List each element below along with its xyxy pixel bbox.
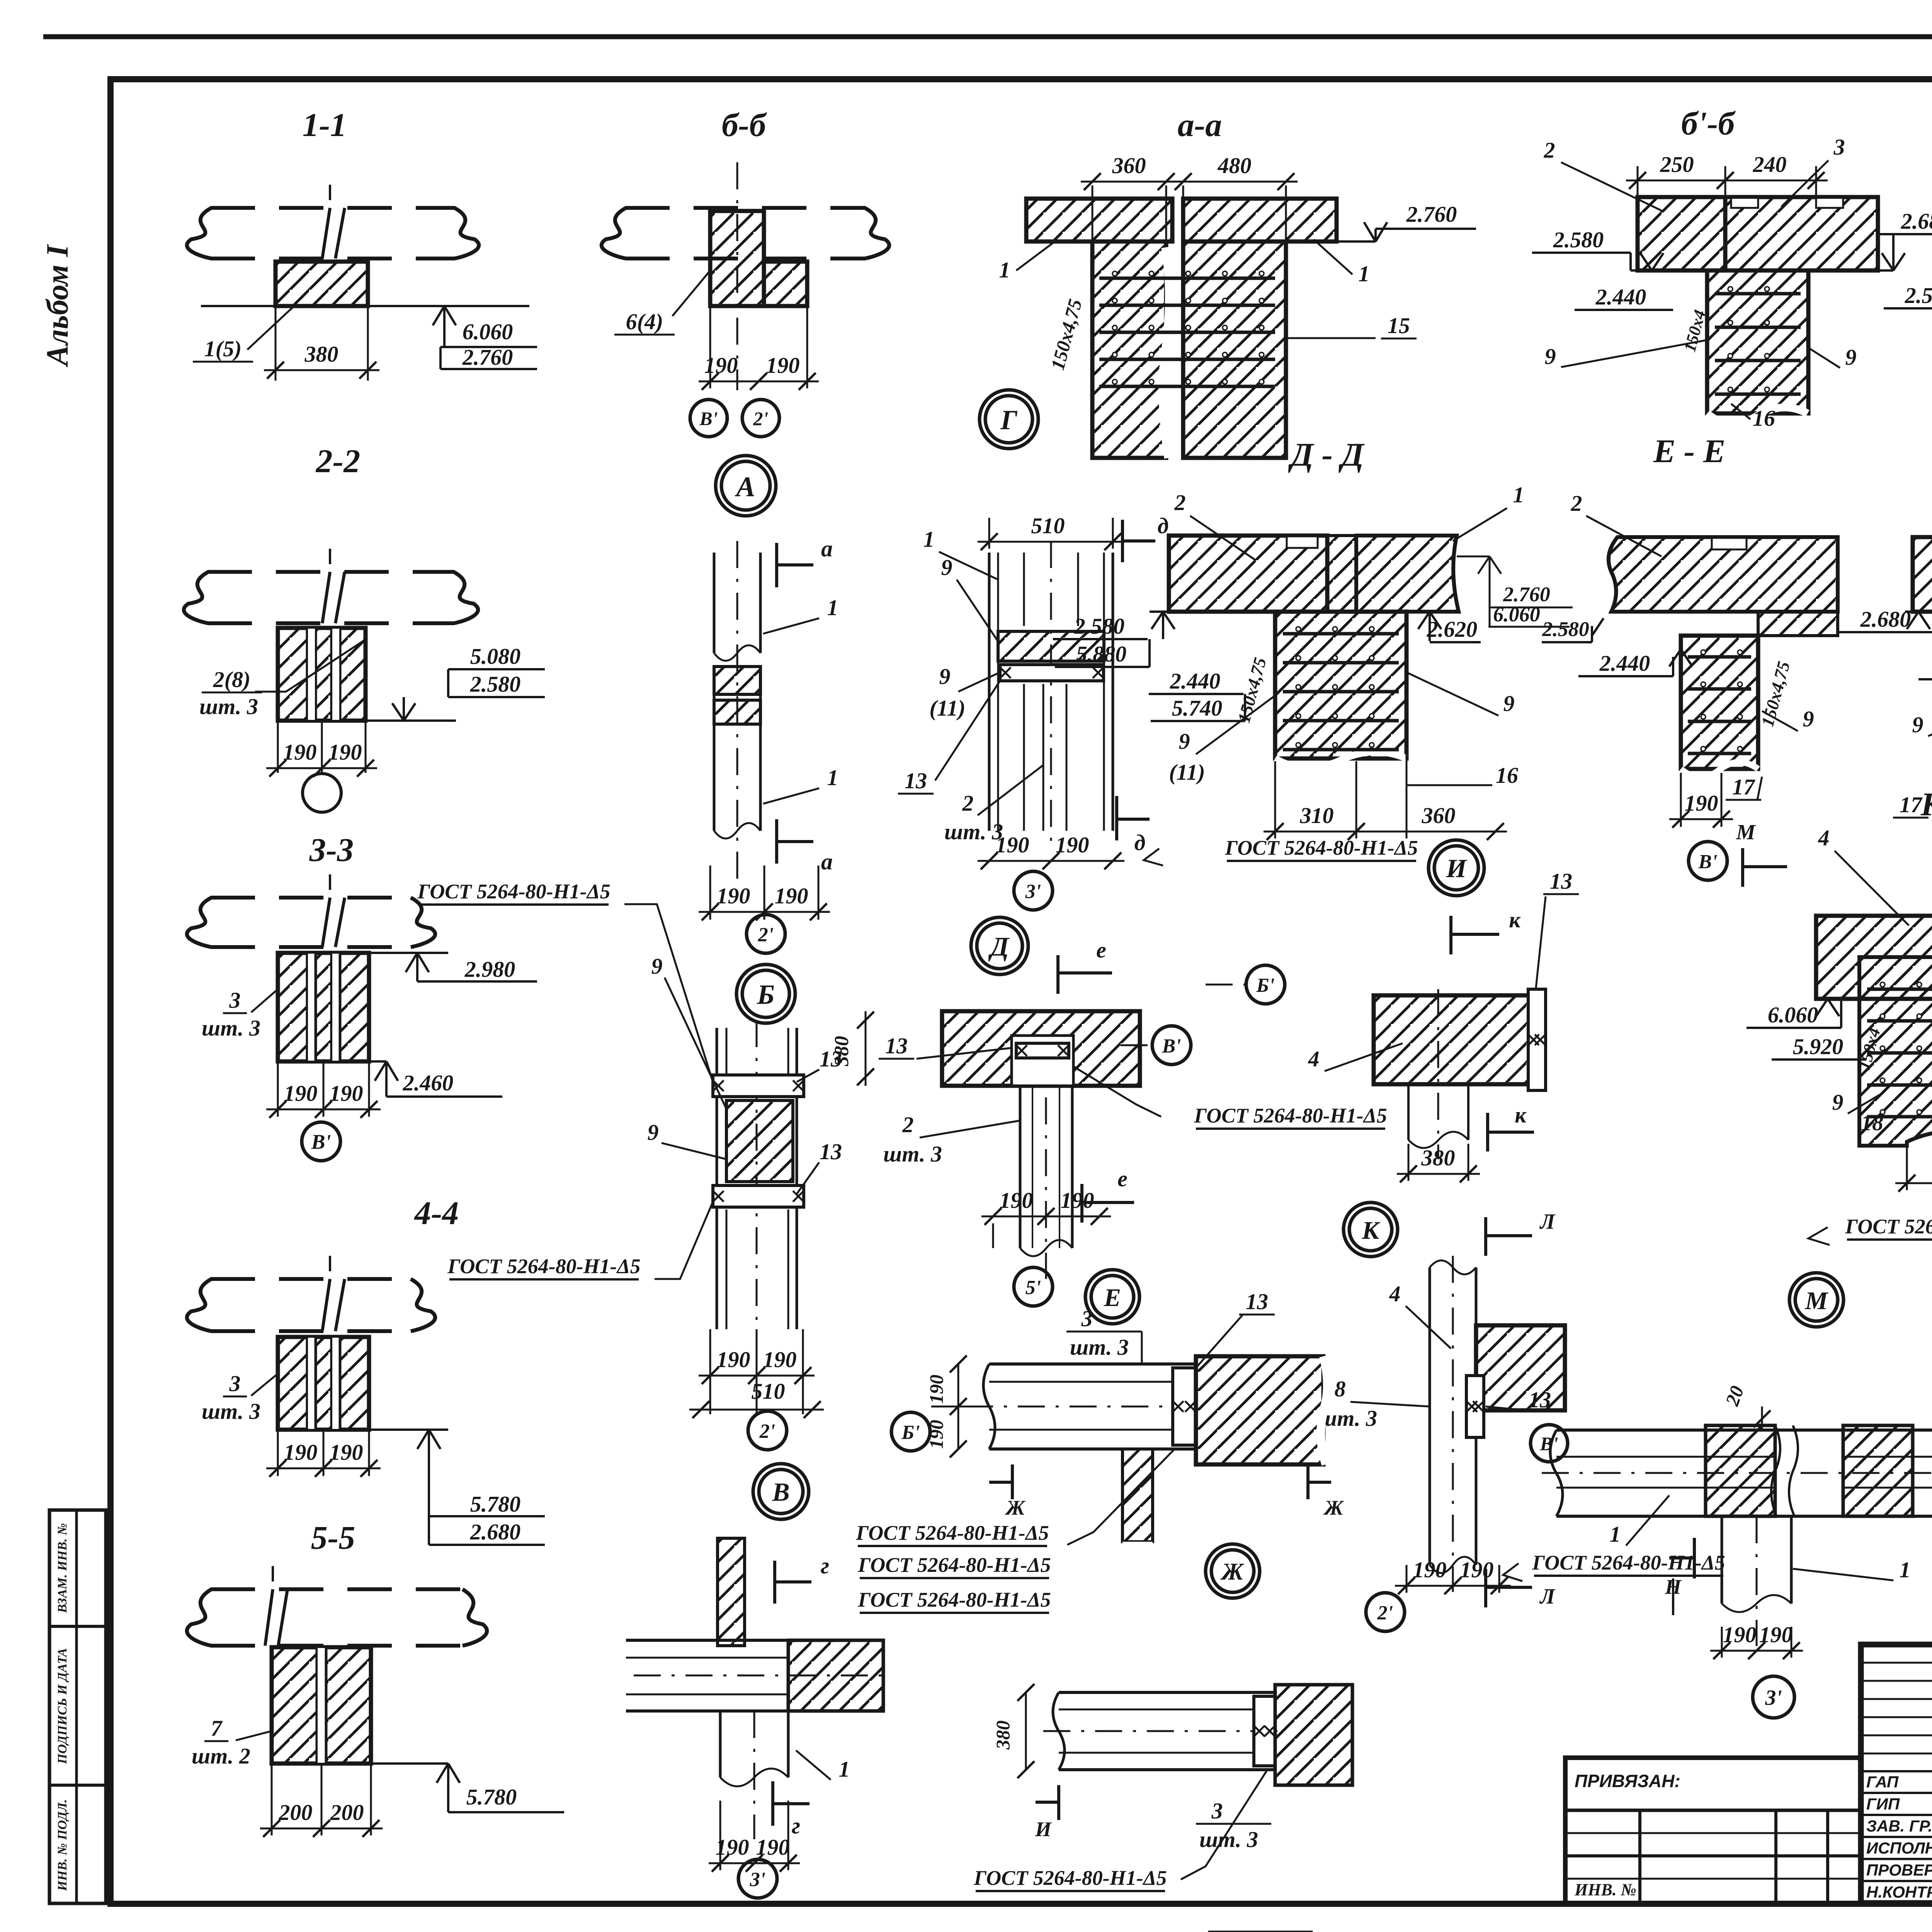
node E circle: [1085, 1270, 1139, 1324]
svg-text:1: 1: [1513, 482, 1524, 507]
svg-text:Л: Л: [1539, 1210, 1556, 1234]
section 3-3 level 2.460: [369, 1060, 386, 1063]
M-node beam top flange: [1556, 1429, 1932, 1432]
node A column elevation: [713, 553, 716, 653]
section 6-6 dims 190 190: [709, 306, 711, 388]
node I column stub: [1407, 1084, 1410, 1140]
node B plate joint 1: [713, 1075, 804, 1097]
svg-text:15: 15: [1388, 313, 1410, 338]
svg-text:190: 190: [996, 832, 1029, 857]
svg-text:2': 2': [759, 1420, 775, 1442]
svg-text:(11): (11): [929, 696, 965, 721]
svg-text:16: 16: [1753, 406, 1775, 431]
svg-text:Е: Е: [1104, 1284, 1121, 1312]
section 2-2 beam: [207, 570, 454, 574]
node Zh vdim 380: [1025, 1692, 1027, 1770]
svg-text:5': 5': [1026, 1277, 1041, 1299]
svg-text:ИНВ. № ПОДЛ.: ИНВ. № ПОДЛ.: [55, 1799, 70, 1891]
section D-D middle column strip: [1327, 536, 1356, 612]
node G dim 510: [988, 518, 990, 549]
svg-text:ВЗАМ. ИНВ. №: ВЗАМ. ИНВ. №: [55, 1523, 70, 1613]
svg-text:2(8): 2(8): [213, 667, 251, 692]
svg-text:16: 16: [1496, 763, 1518, 788]
svg-text:М: М: [1736, 820, 1756, 844]
svg-text:190: 190: [1685, 791, 1718, 816]
axis circle V' below E-E: [1689, 842, 1727, 880]
node G circle: [980, 390, 1038, 449]
section 2-2 pier: [278, 628, 366, 721]
axis circle 3' node G: [1014, 871, 1053, 910]
svg-text:3: 3: [229, 988, 241, 1013]
svg-text:3: 3: [1211, 1798, 1223, 1823]
M-node hatched web pieces: [1706, 1425, 1775, 1516]
axis circle 5': [1014, 1267, 1053, 1306]
svg-text:Н.КОНТР.: Н.КОНТР.: [1866, 1883, 1932, 1901]
svg-text:ГОСТ 5264-80-Н1-Δ5: ГОСТ 5264-80-Н1-Δ5: [1532, 1551, 1725, 1574]
svg-text:9: 9: [1912, 712, 1923, 737]
section K-K slab: [1816, 916, 1932, 999]
svg-text:ГИП: ГИП: [1866, 1795, 1900, 1813]
svg-text:ГОСТ 5264-80-Н1-Δ5: ГОСТ 5264-80-Н1-Δ5: [417, 880, 610, 903]
section a-a left column: [1092, 241, 1166, 458]
node A section marks a: [775, 543, 778, 587]
svg-text:В': В': [1162, 1035, 1181, 1057]
svg-text:И: И: [1035, 1818, 1052, 1841]
section D-D column with studs: [1275, 612, 1406, 759]
svg-text:2.440: 2.440: [1595, 284, 1646, 310]
section a-a stud rows: [1099, 277, 1275, 280]
svg-text:ГАП: ГАП: [1866, 1773, 1899, 1791]
svg-text:190: 190: [328, 740, 362, 765]
node E plate: [1173, 1368, 1196, 1445]
node D dims 190 190: [992, 1223, 994, 1248]
svg-text:380: 380: [992, 1721, 1014, 1750]
svg-text:Г: Г: [1000, 405, 1017, 435]
section 1-1 dim 380: [275, 306, 277, 381]
svg-text:2: 2: [1174, 490, 1186, 515]
svg-text:5.740: 5.740: [1172, 696, 1223, 721]
node D slab: [942, 1011, 1140, 1086]
svg-text:380: 380: [831, 1036, 853, 1066]
svg-text:190: 190: [1056, 832, 1089, 857]
svg-text:3': 3': [1765, 1686, 1782, 1710]
svg-text:1: 1: [1359, 261, 1370, 286]
svg-text:шт. 2: шт. 2: [192, 1743, 250, 1769]
svg-text:2.760: 2.760: [1406, 202, 1457, 227]
node V circle: [753, 1464, 809, 1519]
axis circle B' right of D-D: [1246, 965, 1285, 1004]
svg-text:К - К: К - К: [1920, 786, 1932, 823]
svg-text:Д: Д: [988, 932, 1010, 962]
svg-text:д: д: [1134, 830, 1146, 855]
svg-text:480: 480: [1218, 153, 1252, 178]
svg-text:2.540: 2.540: [1905, 283, 1932, 308]
svg-text:190: 190: [1460, 1557, 1494, 1582]
M-node column stem: [1721, 1516, 1723, 1604]
svg-text:190: 190: [775, 883, 808, 908]
svg-text:шт. 3: шт. 3: [202, 1399, 260, 1424]
node B hatched block: [726, 1100, 793, 1182]
svg-text:4-4: 4-4: [414, 1194, 459, 1231]
svg-text:190: 190: [284, 1440, 318, 1465]
svg-text:190: 190: [717, 1347, 750, 1372]
svg-text:3: 3: [1833, 134, 1845, 160]
svg-text:1: 1: [1900, 1557, 1911, 1582]
svg-text:2.440: 2.440: [1170, 668, 1221, 694]
svg-text:510: 510: [1031, 513, 1065, 538]
section a-a level 2.760: [1337, 240, 1376, 243]
svg-text:г: г: [792, 1813, 800, 1838]
svg-text:200: 200: [330, 1800, 364, 1825]
node I circle: [1429, 840, 1484, 896]
svg-text:б-б: б-б: [722, 106, 767, 143]
node E beam side view: [989, 1362, 1198, 1366]
privyazan box: [1565, 1758, 1861, 1903]
node B circle: [736, 964, 795, 1023]
svg-text:2.680: 2.680: [1860, 607, 1911, 632]
svg-text:190: 190: [925, 1375, 947, 1404]
node K slab right: [1476, 1325, 1565, 1410]
svg-text:шт. 3: шт. 3: [1070, 1335, 1129, 1360]
svg-text:Альбом I: Альбом I: [41, 244, 75, 368]
svg-text:а: а: [821, 536, 833, 561]
section 3-3 beam: [211, 896, 412, 900]
node I plate right: [1528, 989, 1546, 1090]
svg-text:17: 17: [1732, 774, 1755, 799]
svg-text:6.060: 6.060: [1768, 1002, 1818, 1027]
section 1-1 beam: [211, 206, 455, 210]
M-node mark N left: [1693, 1538, 1696, 1578]
svg-text:3: 3: [1081, 1306, 1093, 1331]
svg-text:В': В': [311, 1130, 331, 1153]
svg-text:1: 1: [999, 257, 1010, 282]
section a-a right slab: [1183, 199, 1337, 241]
svg-text:ИНВ. №: ИНВ. №: [1574, 1880, 1636, 1899]
svg-text:а: а: [821, 849, 833, 874]
svg-text:380: 380: [304, 342, 338, 367]
M-node joint gap: [1771, 1425, 1780, 1516]
svg-text:310: 310: [1300, 803, 1334, 828]
section 6-6 column centerline: [736, 162, 738, 390]
svg-text:9: 9: [1503, 691, 1515, 716]
svg-text:2: 2: [1544, 138, 1555, 163]
node G column elevation: [988, 553, 991, 831]
section b'-b dim 250: [1637, 166, 1639, 195]
svg-text:2.980: 2.980: [464, 957, 515, 982]
svg-text:Д - Д: Д - Д: [1288, 436, 1365, 473]
svg-text:6(4): 6(4): [626, 309, 663, 334]
svg-text:2': 2': [758, 924, 774, 946]
section Zh-Zh slab: [1913, 537, 1932, 612]
node V beam side view: [626, 1639, 883, 1642]
svg-text:3': 3': [1025, 881, 1041, 903]
svg-text:2': 2': [1377, 1602, 1393, 1624]
svg-text:18: 18: [1861, 1110, 1883, 1135]
page top border line: [43, 34, 1932, 39]
section 5-5 pier: [272, 1647, 371, 1764]
section b'-b studs: [1715, 292, 1801, 296]
svg-text:ГОСТ 5264-80-Н1-Δ5: ГОСТ 5264-80-Н1-Δ5: [855, 1521, 1049, 1544]
svg-text:1: 1: [839, 1757, 850, 1782]
svg-text:4: 4: [1308, 1046, 1320, 1071]
svg-text:1-1: 1-1: [303, 106, 347, 143]
node K mark L bottom: [1484, 1569, 1487, 1607]
svg-text:9: 9: [939, 664, 951, 689]
svg-text:б'-б: б'-б: [1681, 105, 1736, 142]
node E slab right: [1196, 1356, 1323, 1464]
svg-text:3': 3': [750, 1869, 765, 1891]
svg-text:240: 240: [1753, 152, 1787, 177]
section 6-6 corbel: [764, 262, 807, 306]
svg-text:5.920: 5.920: [1793, 1034, 1844, 1059]
svg-text:190: 190: [1723, 1622, 1757, 1647]
svg-text:ЗАВ. ГР.: ЗАВ. ГР.: [1866, 1817, 1932, 1835]
svg-text:5.780: 5.780: [470, 1492, 521, 1517]
node D plate pocket: [1012, 1036, 1073, 1086]
section 1-1 bearing pad: [276, 262, 368, 306]
svg-text:250: 250: [1660, 152, 1694, 177]
node B plate joint 2: [713, 1185, 804, 1207]
section D-D dims 310 360: [1274, 761, 1276, 838]
node Zh circle: [1206, 1544, 1260, 1598]
section 3-3 level 2.980: [369, 952, 448, 954]
svg-text:шт. 3: шт. 3: [883, 1141, 942, 1167]
node G section marks d: [1121, 520, 1124, 562]
svg-text:шт. 3: шт. 3: [944, 819, 1003, 844]
svg-text:ГОСТ 5264-80-Н1-Δ5: ГОСТ 5264-80-Н1-Δ5: [857, 1553, 1051, 1577]
svg-text:6.060: 6.060: [1493, 603, 1540, 626]
svg-text:7: 7: [211, 1716, 223, 1741]
node E post below: [1122, 1449, 1153, 1542]
section D-D right slab: [1356, 536, 1459, 612]
svg-text:2.460: 2.460: [403, 1070, 454, 1095]
svg-text:4: 4: [1389, 1281, 1401, 1306]
svg-text:190: 190: [284, 1081, 318, 1106]
svg-text:к: к: [1515, 1102, 1527, 1128]
svg-text:ИСПОЛН.: ИСПОЛН.: [1866, 1839, 1932, 1857]
section 2-2 dims 190 190: [277, 721, 279, 773]
svg-text:2.760: 2.760: [462, 345, 513, 370]
svg-text:13: 13: [820, 1139, 842, 1164]
axis circle V' M-node: [1531, 1425, 1568, 1462]
svg-text:190: 190: [763, 1347, 797, 1372]
section 6-6 beam: [625, 206, 866, 210]
section 3-3 dims 190 190: [277, 1061, 279, 1117]
svg-text:1: 1: [923, 527, 935, 552]
node A circle: [716, 456, 776, 516]
svg-text:ГОСТ 5264-80-Н1-Δ5: ГОСТ 5264-80-Н1-Δ5: [1845, 1215, 1932, 1238]
svg-text:М: М: [1805, 1287, 1829, 1315]
node D column below: [1019, 1086, 1022, 1248]
svg-text:(11): (11): [1169, 760, 1205, 785]
node I dim 380: [1408, 1144, 1410, 1181]
section 4-4 levels: [369, 1429, 448, 1431]
section 4-4 beam: [211, 1277, 412, 1281]
section b'-b right slab: [1725, 197, 1878, 270]
section 4-4 pier: [278, 1337, 369, 1430]
node Zh plate: [1254, 1696, 1275, 1766]
node Zh beam side view: [1059, 1691, 1275, 1694]
svg-text:2.680: 2.680: [1901, 209, 1932, 234]
svg-text:Б: Б: [757, 979, 775, 1010]
svg-text:360: 360: [1112, 153, 1146, 178]
svg-text:190: 190: [283, 740, 317, 765]
section a-a dim 360: [1092, 185, 1094, 240]
svg-text:И: И: [1446, 854, 1468, 883]
svg-text:2.580: 2.580: [1553, 227, 1604, 252]
svg-text:2: 2: [902, 1112, 914, 1137]
svg-text:190: 190: [766, 353, 800, 378]
node D circle: [971, 917, 1028, 975]
section 5-5 dims 200 200: [271, 1764, 273, 1835]
node V column stem: [719, 1711, 722, 1777]
node E vdims 190 190: [957, 1364, 959, 1449]
node E marks Zh: [1011, 1464, 1014, 1499]
section 5-5 level 5.780: [371, 1762, 448, 1765]
section K-K mark M top: [1741, 848, 1744, 887]
svg-text:2.580: 2.580: [1542, 617, 1589, 641]
axis circle 2' below node B: [748, 1411, 787, 1450]
svg-text:5.080: 5.080: [470, 644, 521, 669]
section a-a left slab: [1026, 199, 1172, 241]
svg-text:5-5: 5-5: [311, 1519, 355, 1556]
svg-text:2.620: 2.620: [1427, 617, 1478, 642]
node K column: [1429, 1267, 1431, 1565]
svg-text:ПРОВЕР.: ПРОВЕР.: [1866, 1861, 1932, 1879]
svg-text:5.780: 5.780: [466, 1784, 517, 1810]
axis circles B' 2': [690, 400, 727, 437]
svg-text:13: 13: [1529, 1387, 1551, 1412]
node B dims 190 190 510: [709, 1329, 711, 1414]
svg-text:ГОСТ 5264-80-Н1-Δ5: ГОСТ 5264-80-Н1-Δ5: [973, 1866, 1167, 1889]
svg-text:2: 2: [1571, 491, 1582, 516]
svg-text:190: 190: [1061, 1188, 1094, 1213]
section b'-b column: [1707, 270, 1808, 413]
section E-E column: [1681, 636, 1758, 769]
svg-text:360: 360: [1422, 803, 1456, 828]
section D-D level 2.620 right: [1406, 611, 1430, 613]
svg-text:9: 9: [648, 1120, 659, 1145]
svg-text:2': 2': [753, 408, 769, 429]
svg-text:2.760: 2.760: [1503, 583, 1550, 606]
svg-text:ГОСТ 5264-80-Н1-Δ5: ГОСТ 5264-80-Н1-Δ5: [857, 1588, 1051, 1611]
svg-text:1: 1: [827, 765, 838, 790]
section b'-b left slab: [1638, 197, 1725, 270]
node M circle: [1789, 1273, 1844, 1327]
axis circle 3' bottom: [738, 1859, 777, 1898]
svg-text:А: А: [735, 471, 755, 503]
node G dims 190 190: [978, 860, 1124, 862]
svg-text:1: 1: [827, 595, 838, 620]
node G plate: [1000, 665, 1104, 681]
svg-text:9: 9: [1179, 729, 1190, 754]
section 3-3 axis circle V': [302, 1122, 340, 1161]
section 5-5 beam: [211, 1587, 463, 1591]
svg-text:2.440: 2.440: [1599, 651, 1650, 676]
section E-E seat: [1758, 612, 1838, 636]
node K dims 190 190: [1406, 1565, 1408, 1593]
section 3-3 pier: [278, 953, 369, 1061]
svg-text:9: 9: [1803, 706, 1814, 731]
section 6-6 column upper: [710, 211, 764, 306]
svg-text:В': В': [1698, 851, 1717, 873]
node K plate: [1466, 1376, 1484, 1437]
svg-text:к: к: [1509, 907, 1521, 932]
svg-text:190: 190: [717, 883, 750, 908]
node A wall segments: [714, 667, 760, 694]
svg-text:2.580: 2.580: [470, 672, 521, 697]
svg-text:Ж: Ж: [1323, 1496, 1344, 1519]
svg-text:Ж: Ж: [1220, 1559, 1245, 1585]
section E-E dims: [1680, 773, 1682, 827]
node D dim 380 left: [865, 1011, 867, 1086]
axis circle V' right of node D: [1152, 1026, 1191, 1065]
svg-text:3-3: 3-3: [309, 831, 354, 868]
svg-text:190: 190: [716, 1835, 749, 1860]
node K circle: [1344, 1202, 1398, 1257]
svg-text:е: е: [1096, 937, 1106, 963]
svg-text:Б': Б': [1256, 975, 1274, 997]
svg-text:г: г: [821, 1553, 829, 1578]
node G hatched band: [998, 631, 1104, 661]
svg-text:Е - Е: Е - Е: [1653, 432, 1725, 469]
svg-text:Л: Л: [1539, 1585, 1556, 1609]
svg-text:ГОСТ 5264-80-Н1-Δ5: ГОСТ 5264-80-Н1-Δ5: [1194, 1104, 1387, 1127]
section D-D left slab: [1169, 536, 1327, 612]
svg-text:380: 380: [1421, 1145, 1455, 1170]
node I mark k bottom: [1486, 1113, 1489, 1151]
svg-text:2.580: 2.580: [1074, 614, 1125, 639]
svg-text:2-2: 2-2: [315, 442, 361, 480]
axis circle B' node E: [891, 1412, 930, 1451]
svg-text:шт. 3: шт. 3: [202, 1015, 260, 1041]
svg-text:В: В: [772, 1477, 789, 1507]
svg-text:9: 9: [651, 954, 663, 979]
svg-text:К: К: [1362, 1216, 1381, 1245]
svg-text:Б': Б': [901, 1422, 920, 1444]
node K mark L top: [1484, 1217, 1487, 1256]
svg-text:9: 9: [1545, 344, 1556, 369]
svg-text:2.680: 2.680: [470, 1519, 521, 1544]
svg-text:9: 9: [941, 555, 952, 580]
node V vertical plate: [718, 1538, 745, 1646]
svg-text:3: 3: [229, 1371, 241, 1396]
node D mark e bottom: [1080, 1184, 1083, 1223]
section a-a dim 480: [1182, 185, 1184, 197]
svg-text:а-а: а-а: [1178, 106, 1222, 143]
svg-text:13: 13: [905, 768, 927, 793]
svg-text:5.880: 5.880: [1076, 641, 1127, 667]
axis circle 3' M-node: [1753, 1676, 1794, 1718]
svg-text:1(5): 1(5): [204, 336, 242, 361]
svg-text:510: 510: [752, 1379, 785, 1404]
section K-K dim 310: [1906, 1148, 1908, 1190]
svg-text:ПОДПИСЬ И ДАТА: ПОДПИСЬ И ДАТА: [55, 1648, 70, 1764]
svg-text:13: 13: [885, 1033, 908, 1058]
svg-text:шт. 3: шт. 3: [199, 694, 258, 719]
svg-text:190: 190: [1000, 1188, 1033, 1213]
node V slab right: [788, 1640, 883, 1711]
svg-text:190: 190: [330, 1440, 363, 1465]
svg-text:13: 13: [1246, 1289, 1268, 1314]
node B column elevation: [716, 1028, 718, 1329]
section b'-b dim 240: [1815, 166, 1817, 195]
title block staff rows: [1861, 1770, 1932, 1772]
node D mark e top: [1056, 955, 1060, 994]
title block frame: [1861, 1645, 1932, 1903]
section 4-4 dims 190 190: [277, 1430, 279, 1476]
svg-text:190: 190: [1413, 1557, 1447, 1582]
